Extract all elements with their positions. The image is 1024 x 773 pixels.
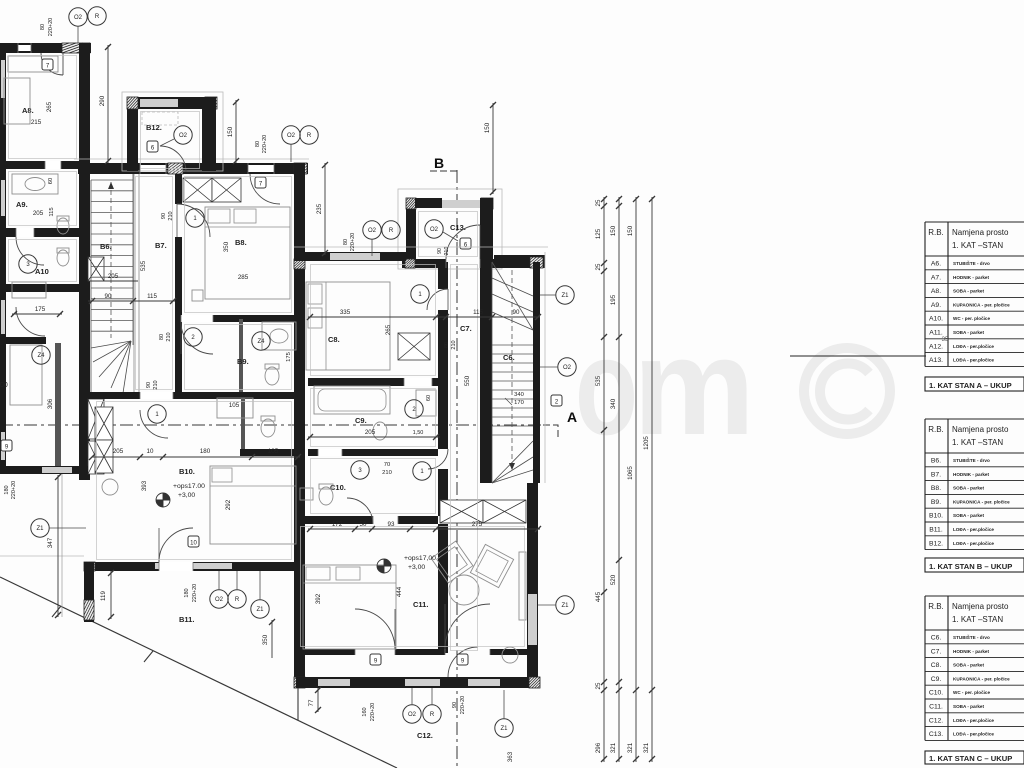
svg-text:O2: O2: [408, 712, 417, 718]
svg-text:265: 265: [46, 101, 53, 112]
section line A-A corner bracket: [543, 425, 558, 440]
stub wall below B/C to plot line: [297, 688, 299, 720]
door arc B10 to B11: [159, 528, 193, 562]
svg-text:+3,00: +3,00: [408, 564, 425, 571]
svg-text:393: 393: [141, 480, 148, 491]
svg-text:306: 306: [47, 398, 54, 409]
svg-text:O2: O2: [287, 133, 296, 139]
svg-text:R: R: [95, 14, 100, 20]
dimension line 90 115 in B6: [88, 300, 175, 302]
svg-text:WC - per. pločice: WC - per. pločice: [953, 690, 990, 695]
table B outer border: [925, 418, 1024, 420]
svg-text:B11.: B11.: [179, 615, 194, 624]
svg-text:60: 60: [48, 178, 54, 184]
wall B9 WC partition vertical: [239, 319, 243, 392]
dimension line 77 below B: [317, 688, 319, 712]
svg-text:C9.: C9.: [355, 416, 367, 425]
svg-text:A: A: [567, 409, 577, 425]
furniture A8 closet: [8, 56, 58, 72]
svg-text:B11.: B11.: [929, 527, 943, 534]
wall A top hatch segment: [62, 43, 90, 53]
wall C6 stairs left vertical: [480, 262, 492, 483]
svg-text:220+20: 220+20: [370, 703, 376, 722]
furniture C11 round table: [449, 575, 479, 605]
dimension 205 in B6: [88, 280, 138, 282]
svg-text:90: 90: [161, 213, 167, 219]
finish line A9: [9, 172, 77, 226]
svg-text:A9.: A9.: [16, 200, 28, 209]
reference circle 2 at 193,337: [184, 328, 202, 346]
svg-text:C6.: C6.: [931, 635, 942, 642]
svg-text:535: 535: [140, 260, 147, 271]
furniture A lower room cabinet: [10, 345, 42, 405]
svg-text:347: 347: [47, 537, 54, 548]
leader line O2 above B wall: [290, 144, 292, 162]
svg-text:C7.: C7.: [931, 648, 942, 655]
reference circle Z1 at 565,295: [556, 286, 574, 304]
staircase B6 walking line with arrow: [110, 182, 112, 338]
furniture C8 bed: [306, 282, 390, 370]
svg-text:115: 115: [49, 207, 55, 216]
door box 7 A8 entry: [42, 59, 53, 70]
summary bar apartment B: [925, 558, 1024, 572]
door arc C11 left: [355, 609, 395, 649]
hatch block in B/C wall at C top: [294, 259, 305, 269]
furniture B10 wardrobe X: [95, 407, 113, 440]
finish line C7 corridor: [451, 265, 478, 651]
svg-text:Z1: Z1: [500, 726, 508, 732]
svg-text:210: 210: [166, 332, 172, 341]
svg-text:SOBA - parket: SOBA - parket: [953, 513, 984, 518]
svg-text:B12.: B12.: [929, 540, 943, 547]
svg-text:O2: O2: [430, 227, 439, 233]
leader line R B11: [236, 571, 238, 590]
finish line C13 interior: [419, 212, 478, 257]
wall B12 left: [127, 97, 138, 171]
leader line O2 above C13: [371, 239, 373, 256]
dimension line 150 above C13: [492, 103, 494, 194]
wall C9/C10 divider: [308, 449, 438, 456]
svg-text:C10.: C10.: [929, 690, 943, 697]
svg-text:150: 150: [227, 126, 234, 137]
wall B11 left with hatch: [84, 562, 94, 622]
svg-text:+ops17.00: +ops17.00: [173, 483, 205, 490]
svg-text:SOBA - parket: SOBA - parket: [953, 704, 984, 709]
svg-text:m: m: [633, 310, 755, 464]
staircase C6 winder diagonal: [492, 262, 533, 330]
svg-text:+3,00: +3,00: [178, 492, 195, 499]
svg-text:205: 205: [113, 448, 124, 455]
wall C13 left: [406, 198, 416, 259]
finish line B7: [136, 177, 173, 390]
staircase C6 winder fan: [492, 278, 533, 296]
wall B9/B10 divider horizontal: [88, 392, 298, 399]
svg-text:1. KAT STAN A – UKUP: 1. KAT STAN A – UKUP: [929, 381, 1012, 390]
svg-text:KUPAONICA - per. pločice: KUPAONICA - per. pločice: [953, 302, 1010, 307]
door frame lines: [17, 43, 19, 53]
svg-text:C13.: C13.: [450, 223, 466, 232]
table A outer border: [925, 221, 1024, 223]
wall C11 bottom left segment: [296, 649, 355, 655]
svg-text:Z4: Z4: [257, 339, 265, 345]
svg-text:60: 60: [426, 395, 432, 401]
wall B7/B8 vertical mid: [175, 237, 182, 318]
finish line C11 room: [301, 527, 525, 647]
svg-text:10: 10: [190, 540, 197, 546]
finish line B10: [97, 402, 292, 560]
svg-text:C8.: C8.: [931, 662, 942, 669]
wall C10/C11 divider right: [398, 516, 438, 524]
wall C6 stairs right vertical: [533, 262, 540, 483]
svg-text:O2: O2: [215, 597, 224, 603]
wall A interior vertical lower: [55, 343, 61, 466]
section line B-B top bracket: [430, 170, 457, 172]
svg-text:520: 520: [610, 574, 617, 585]
furniture B9 sink counter: [262, 322, 296, 350]
leader line O2 C12: [411, 688, 413, 705]
svg-text:Z1: Z1: [256, 607, 264, 613]
door arc C11 right: [445, 604, 490, 649]
svg-text:285: 285: [238, 274, 249, 281]
svg-text:C6.: C6.: [503, 353, 515, 362]
furniture C9 toilet: [373, 422, 387, 440]
svg-text:B12.: B12.: [146, 123, 162, 132]
reference circle R at 237,599: [228, 590, 246, 608]
reference circle 2 at 414,409: [405, 400, 423, 418]
outer contour line above C top wall: [294, 246, 548, 248]
reference circle Z1 at 260,609: [251, 600, 269, 618]
dimension line 119 below B10: [110, 571, 112, 619]
svg-text:205: 205: [33, 210, 44, 217]
staircase C6 bottom winders: [492, 441, 533, 483]
wall C12 railing bottom with windows: [296, 677, 540, 688]
leader line Z1 stairs right: [540, 294, 556, 296]
leader line Z1 C12: [503, 690, 505, 719]
svg-text:O2: O2: [179, 133, 188, 139]
door box 9 C11 left: [370, 654, 381, 665]
svg-text:340: 340: [610, 398, 617, 409]
svg-text:180: 180: [184, 588, 190, 597]
svg-text:A13.: A13.: [929, 357, 943, 364]
leader line Z1 C11 right: [538, 604, 556, 606]
wall C7 corridor left vertical segment 4: [438, 524, 448, 653]
svg-text:1065: 1065: [627, 466, 634, 480]
svg-text:215: 215: [31, 119, 42, 126]
furniture B WC shower: [217, 398, 253, 418]
svg-text:LOĐA - per.pločice: LOĐA - per.pločice: [953, 344, 994, 349]
wall A10 bottom divider: [0, 284, 82, 292]
wall B12 top with window: [127, 97, 217, 109]
svg-text:220+20: 220+20: [460, 696, 466, 715]
svg-text:210: 210: [444, 247, 450, 256]
dimension line C11 top chain: [308, 528, 540, 530]
wall C11 bottom right segment: [490, 649, 538, 655]
finish line C8 room: [311, 265, 436, 376]
svg-text:350: 350: [262, 634, 269, 645]
wall C8/C9 divider: [308, 378, 438, 386]
svg-text:O2: O2: [368, 228, 377, 234]
svg-text:115: 115: [147, 293, 157, 300]
door arc B12: [160, 146, 186, 172]
furniture C11 armchair 1: [431, 541, 473, 583]
svg-text:C12.: C12.: [417, 731, 433, 740]
svg-text:80: 80: [255, 141, 261, 147]
svg-text:180: 180: [200, 448, 211, 455]
svg-text:WC - per. pločice: WC - per. pločice: [953, 316, 990, 321]
svg-text:HODNIK - parket: HODNIK - parket: [953, 649, 989, 654]
finish line A8: [9, 56, 77, 159]
wall C top exterior left of C13: [294, 252, 406, 261]
furniture B8 bed: [205, 207, 290, 299]
leader line Z1 B11: [259, 571, 261, 600]
svg-text:LOĐA - per.pločice: LOĐA - per.pločice: [953, 358, 994, 363]
svg-text:STUBIŠTE - drvo: STUBIŠTE - drvo: [953, 633, 990, 640]
svg-text:A10: A10: [35, 267, 49, 276]
svg-text:STUBIŠTE - drvo: STUBIŠTE - drvo: [953, 259, 990, 266]
svg-text:105: 105: [229, 402, 240, 409]
hatch block C top right: [530, 257, 543, 268]
staircase B6 open side double line: [133, 174, 135, 392]
svg-text:290: 290: [99, 95, 106, 106]
svg-text:105: 105: [268, 448, 279, 455]
svg-text:Z4: Z4: [37, 353, 45, 359]
furniture C11 armchair 2: [470, 544, 513, 587]
svg-text:LOĐA - per.pločice: LOĐA - per.pločice: [953, 527, 994, 532]
furniture A8 sink counter: [12, 174, 58, 194]
door arc B7 top: [177, 204, 210, 237]
svg-text:175: 175: [35, 306, 46, 313]
svg-text:93: 93: [388, 521, 395, 528]
dimension line chain 3 x636: [635, 197, 637, 762]
wall A left exterior with windows: [0, 43, 6, 473]
furniture C11 lamp circle: [502, 647, 518, 663]
window box 9 left edge: [1, 440, 12, 451]
door arc C8: [427, 289, 448, 310]
svg-text:1. KAT STAN C – UKUP: 1. KAT STAN C – UKUP: [929, 754, 1012, 763]
dimension line 290 left of B12: [107, 45, 109, 163]
svg-text:SOBA - parket: SOBA - parket: [953, 486, 984, 491]
svg-text:172: 172: [332, 521, 343, 528]
svg-text:o: o: [575, 310, 638, 464]
door arc A10: [16, 307, 45, 336]
svg-text:350: 350: [223, 241, 230, 252]
hatch block B10 railing left: [84, 562, 95, 571]
hatched block in A/B6 wall lower: [88, 399, 104, 439]
wall C11 bottom mid segment: [395, 649, 445, 655]
svg-text:1. KAT STAN B – UKUP: 1. KAT STAN B – UKUP: [929, 562, 1012, 571]
dimension line 150 right of B12: [235, 100, 237, 163]
dimension line chain 2 x619: [618, 197, 620, 762]
summary bar apartment C: [925, 751, 1024, 764]
svg-text:210: 210: [451, 340, 457, 349]
staircase B6 side rails: [90, 180, 92, 392]
svg-text:220+20: 220+20: [350, 233, 356, 252]
svg-text:115: 115: [473, 309, 483, 316]
svg-text:B10.: B10.: [179, 467, 195, 476]
svg-text:220+20: 220+20: [192, 584, 198, 603]
door arc C10: [347, 498, 373, 524]
door box 6 B12: [147, 141, 158, 152]
dimension line 347 below A: [57, 475, 59, 617]
svg-text:150: 150: [484, 122, 491, 133]
svg-text:SOBA - parket: SOBA - parket: [953, 289, 984, 294]
furniture C9 bathtub: [314, 386, 390, 414]
svg-text:A6.: A6.: [931, 261, 941, 268]
leader line O2 stairs right: [540, 366, 558, 368]
svg-text:444: 444: [396, 586, 403, 597]
dimension line chain 1 x604: [603, 197, 605, 762]
svg-text:KUPAONICA - per. pločice: KUPAONICA - per. pločice: [953, 676, 1010, 681]
door box 10 B10: [188, 536, 199, 547]
svg-text:1. KAT –STAN: 1. KAT –STAN: [952, 241, 1003, 250]
door arc A8 entry top: [41, 53, 63, 75]
finish line B8: [185, 177, 292, 313]
tick on plot boundary 2: [144, 651, 153, 662]
svg-text:195: 195: [610, 294, 617, 305]
svg-text:50: 50: [360, 521, 367, 528]
finish line B12 interior: [141, 112, 200, 169]
svg-text:210: 210: [168, 211, 174, 220]
staircase B6 winder steps: [91, 341, 131, 348]
furniture C10 sink: [300, 488, 313, 500]
wall C right below stairs with window: [527, 483, 538, 677]
table C outer border: [925, 595, 1024, 597]
svg-text:210: 210: [153, 380, 159, 389]
svg-text:10: 10: [147, 448, 154, 455]
svg-text:SOBA - parket: SOBA - parket: [953, 330, 984, 335]
wall A8/A9 divider: [0, 161, 79, 169]
hatch block B11 left wall: [84, 600, 94, 620]
svg-text:25: 25: [595, 263, 602, 270]
staircase C6 treads: [492, 344, 533, 346]
wall C13 top inner black: [415, 198, 442, 208]
wall B7/B8 vertical upper: [175, 174, 182, 204]
svg-text:B9.: B9.: [931, 499, 941, 506]
furniture B8 nightstand: [192, 290, 203, 301]
hatch block at B/C top corner: [294, 163, 307, 174]
outer contour line above B top wall: [74, 158, 309, 160]
svg-text:C11.: C11.: [413, 600, 428, 609]
furniture C11 sideboard: [519, 552, 526, 620]
reference circle Z1 at 40,528: [31, 519, 49, 537]
hatch block C13 top-left: [406, 198, 416, 209]
svg-text:1. KAT –STAN: 1. KAT –STAN: [952, 615, 1003, 624]
leader line Z1 left: [49, 527, 86, 529]
svg-text:00: 00: [0, 382, 8, 389]
shaft X block at C9 top: [398, 333, 430, 360]
svg-text:210: 210: [382, 470, 392, 476]
svg-text:A7.: A7.: [931, 274, 941, 281]
svg-text:Z1: Z1: [561, 603, 569, 609]
svg-text:80: 80: [40, 24, 46, 30]
dimension line C9 chain: [308, 436, 440, 438]
terrace edge line below A: [0, 555, 84, 557]
svg-text:535: 535: [595, 375, 602, 386]
leader line O2 C13 to door box: [443, 232, 458, 241]
terrace vertical edge line below A: [61, 474, 63, 617]
svg-text:SOBA - parket: SOBA - parket: [953, 663, 984, 668]
dimension line 175 in A10: [12, 313, 62, 315]
svg-text:90: 90: [513, 309, 520, 316]
door box 7 B entry: [255, 177, 266, 188]
svg-text:STUBIŠTE - drvo: STUBIŠTE - drvo: [953, 456, 990, 463]
svg-text:70: 70: [384, 462, 390, 468]
svg-text:C12.: C12.: [929, 717, 943, 724]
dimension line 350 right of B11: [271, 620, 273, 658]
wall B10 bottom railing with window: [84, 562, 298, 571]
svg-text:B6.: B6.: [931, 458, 941, 465]
svg-text:LOĐA - per.pločice: LOĐA - per.pločice: [953, 718, 994, 723]
dimension line C8 top chain: [308, 316, 540, 318]
svg-text:90: 90: [146, 382, 152, 388]
furniture A9 toilet: [57, 218, 69, 234]
watermark copyright symbol: [804, 348, 890, 434]
staircase B6 treads: [91, 179, 133, 181]
svg-text:1,50: 1,50: [413, 430, 424, 436]
svg-text:B9.: B9.: [237, 357, 249, 366]
svg-text:A12.: A12.: [929, 343, 943, 350]
wall B12 right: [202, 97, 216, 171]
svg-text:90: 90: [105, 293, 112, 300]
svg-text:550: 550: [464, 375, 471, 386]
hatch block C12 railing right: [529, 677, 540, 688]
svg-text:220+20: 220+20: [262, 135, 268, 154]
svg-text:R: R: [389, 228, 394, 234]
reference circle O2 at 372,230: [363, 221, 381, 239]
reference circle O2 at 567,367: [558, 358, 576, 376]
wall C7 corridor left vertical segment 2: [438, 310, 448, 449]
reference circle Z1 at 565,605: [556, 596, 574, 614]
wall C13 top window gray: [442, 200, 481, 208]
hatch block in B/C wall at bottom railing: [294, 677, 305, 688]
svg-text:175: 175: [286, 352, 292, 362]
section line A-A horizontal dash-dot: [0, 424, 543, 426]
svg-text:265: 265: [385, 324, 392, 335]
svg-text:80: 80: [159, 334, 165, 340]
svg-text:HODNIK - parket: HODNIK - parket: [953, 275, 989, 280]
reference circle R at 432,714: [423, 705, 441, 723]
svg-text:R: R: [235, 597, 240, 603]
svg-text:160: 160: [362, 707, 368, 716]
svg-text:90: 90: [452, 702, 458, 708]
hatched block in A/B6 wall lowest: [88, 441, 104, 474]
svg-text:35: 35: [942, 337, 949, 343]
svg-text:B8.: B8.: [235, 238, 247, 247]
hatched block in A/B6 wall upper: [88, 257, 104, 281]
reference circle R at 97,16: [88, 7, 106, 25]
svg-text:80: 80: [343, 239, 349, 245]
svg-text:25: 25: [595, 199, 602, 206]
svg-text:A11.: A11.: [929, 330, 943, 337]
wall B/C shared vertical spine: [294, 163, 305, 688]
svg-text:A9.: A9.: [931, 302, 941, 309]
door arc C13: [446, 225, 480, 259]
finish line C10 room: [311, 459, 436, 514]
svg-text:335: 335: [340, 309, 351, 316]
svg-text:205: 205: [365, 429, 376, 436]
leader line into table row A13: [790, 355, 926, 357]
dimension line chain 4 x652: [651, 197, 653, 762]
section label box 2: [551, 395, 562, 406]
reference circle Z4 at 41,355: [32, 346, 50, 364]
furniture A10 toilet: [57, 250, 69, 266]
svg-text:A8.: A8.: [22, 106, 34, 115]
wall C7 corridor left vertical segment 3: [438, 469, 448, 516]
svg-text:A8.: A8.: [931, 288, 941, 295]
wall A interior lower divider: [0, 337, 46, 344]
svg-text:B6.: B6.: [100, 242, 112, 251]
svg-text:C13.: C13.: [929, 731, 943, 738]
